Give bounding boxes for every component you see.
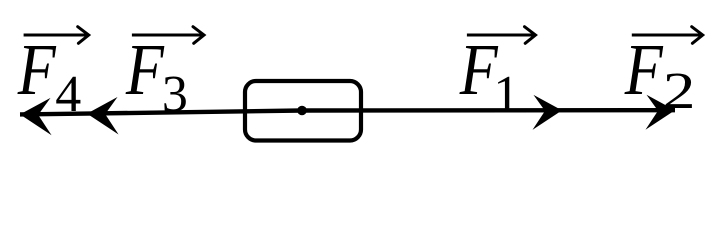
label F2 vector arrow xyxy=(632,34,701,37)
label F4 vector arrow xyxy=(24,34,87,37)
arrowhead force F2 (rightward tip) xyxy=(646,95,676,130)
svg-text:F: F xyxy=(125,29,165,110)
svg-text:1: 1 xyxy=(493,66,519,123)
svg-text:2: 2 xyxy=(663,61,696,119)
wire main horizontal force line xyxy=(20,110,675,114)
arrowhead force F3 (leftward tip) xyxy=(87,97,119,134)
label F3 vector arrow xyxy=(132,34,202,37)
node center dot of box xyxy=(297,106,307,116)
arrowhead force F4 (leftward tip) xyxy=(20,98,52,135)
svg-text:3: 3 xyxy=(162,66,188,123)
arrowhead force F1 (rightward tip) xyxy=(533,95,563,130)
svg-text:F: F xyxy=(17,29,57,110)
label F1 vector arrow xyxy=(467,34,534,37)
box (object) rounded rectangle xyxy=(245,81,361,141)
svg-text:4: 4 xyxy=(55,66,81,123)
svg-text:F: F xyxy=(624,29,664,110)
